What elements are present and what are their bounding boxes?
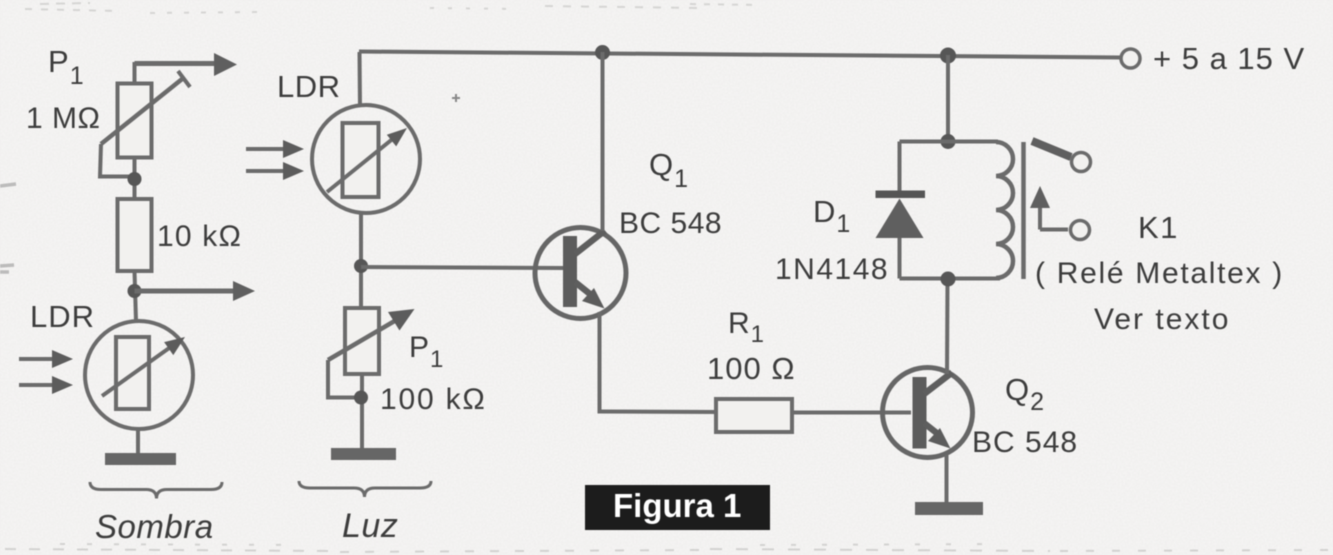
scan speck	[452, 94, 460, 102]
potentiometer P1 (1 M ohm) body	[118, 62, 152, 200]
arrow to right from P1 top	[135, 53, 238, 76]
svg-text:Figura 1: Figura 1	[613, 487, 741, 524]
svg-text:Ver texto: Ver texto	[1094, 303, 1230, 336]
relay switch arm	[1032, 141, 1091, 172]
node C junction dot	[354, 259, 368, 273]
svg-text:( Relé Metaltex ): ( Relé Metaltex )	[1035, 257, 1284, 290]
light arrows into LDR1	[19, 350, 73, 394]
Figura 1 box	[585, 485, 770, 530]
Q1 collector wire	[601, 52, 605, 231]
power rail wire	[359, 52, 1122, 58]
svg-text:LDR: LDR	[277, 69, 341, 104]
scan noise bottom edge	[5, 544, 1330, 552]
svg-text:1N4148: 1N4148	[775, 253, 889, 286]
ground (middle)	[331, 448, 396, 460]
supply terminal	[1121, 49, 1140, 68]
potentiometer P1 (100 k) body	[345, 308, 379, 374]
ground (left)	[105, 453, 176, 465]
diode D1	[876, 191, 926, 279]
relay top wire	[900, 140, 999, 144]
svg-text:K1: K1	[1138, 210, 1179, 245]
svg-text:Sombra: Sombra	[95, 508, 214, 545]
rail node for Q1	[595, 45, 610, 60]
arrow to right from node B	[135, 281, 256, 301]
LDR2 photoresistor	[312, 105, 420, 213]
transistor Q2	[883, 368, 973, 458]
relay coil K1	[996, 142, 1013, 278]
relay core bar	[1021, 142, 1026, 279]
LDR1 photoresistor	[85, 321, 193, 429]
svg-text:100 kΩ: 100 kΩ	[380, 383, 487, 416]
wire P1 bottom	[360, 374, 364, 450]
Q2 emitter wire	[945, 455, 949, 504]
brace under Luz	[299, 481, 431, 497]
wire R1 to Q2 base	[792, 411, 911, 415]
node D junction dot	[354, 391, 368, 405]
light arrows into LDR2	[246, 140, 304, 180]
ground (right)	[915, 502, 983, 515]
rail node for relay	[940, 48, 956, 64]
wire emitter to R1	[598, 410, 717, 415]
wire node C to Q1 base	[361, 267, 563, 268]
transistor Q1	[535, 228, 626, 319]
resistor 10 k	[118, 199, 152, 271]
wire LDR2 to P1	[359, 213, 363, 308]
wire to D1 cathode	[898, 142, 902, 193]
svg-text:+ 5 a 15 V: + 5 a 15 V	[1153, 41, 1305, 76]
node B junction dot	[128, 284, 142, 298]
brace under Sombra	[90, 482, 222, 499]
P1 100k wiper arrow	[328, 309, 415, 398]
svg-text:10 kΩ: 10 kΩ	[157, 220, 242, 253]
node A junction dot	[128, 172, 142, 186]
relay actuation arrow and contact	[1030, 186, 1090, 240]
svg-text:BC 548: BC 548	[972, 426, 1078, 459]
P1 wiper with T-bar	[100, 71, 190, 177]
scan noise top edge	[25, 3, 760, 13]
wire rail to LDR2	[358, 52, 363, 107]
relay bottom junction dot	[941, 272, 956, 287]
svg-text:Luz: Luz	[342, 507, 398, 545]
svg-text:LDR: LDR	[30, 299, 95, 334]
wire resistor to LDR	[135, 271, 137, 321]
Q2 collector wire	[945, 279, 950, 374]
scan smudge left edge	[0, 184, 16, 272]
relay top junction dot	[941, 134, 956, 149]
svg-text:BC 548: BC 548	[619, 207, 722, 240]
Q1 emitter wire	[598, 312, 602, 412]
svg-text:100 Ω: 100 Ω	[707, 351, 796, 386]
relay bottom wire	[900, 277, 1001, 281]
svg-text:1 MΩ: 1 MΩ	[26, 102, 100, 135]
wire rail to relay	[946, 55, 950, 141]
wire LDR1 to ground	[136, 429, 140, 455]
resistor R1	[716, 399, 792, 432]
